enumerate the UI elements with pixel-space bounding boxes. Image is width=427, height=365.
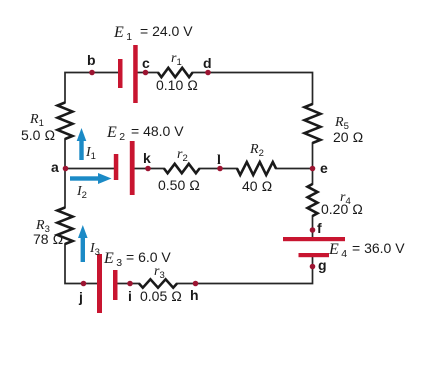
svg-text:0.20 Ω: 0.20 Ω bbox=[321, 201, 363, 217]
wire middle right: R2 to e bbox=[276, 168, 313, 170]
wire middle left: a to battery E2 bbox=[65, 168, 114, 170]
wire bottom left: r3 to i to battery E3 bbox=[118, 283, 140, 285]
current arrow I1 bbox=[79, 139, 83, 160]
node i bbox=[127, 281, 133, 287]
wire right: r4 to f to battery E4 bbox=[312, 216, 314, 237]
node d bbox=[205, 70, 211, 76]
battery E1 positive plate (long) bbox=[133, 45, 138, 103]
svg-text:I2: I2 bbox=[76, 184, 87, 201]
node c bbox=[143, 70, 149, 76]
svg-text:k: k bbox=[143, 150, 151, 166]
resistor R5 20ohm bbox=[305, 104, 321, 143]
svg-text:f: f bbox=[317, 220, 322, 236]
wire top right: r1 to top-right corner down to R5 bbox=[193, 73, 313, 105]
svg-text:= 6.0 V: = 6.0 V bbox=[126, 249, 171, 265]
resistor R1 5.0ohm bbox=[58, 103, 73, 140]
svg-text:E4: E4 bbox=[328, 241, 347, 260]
node f bbox=[310, 227, 316, 233]
wire bottom: battery E3 to j to corner up to R3 bbox=[65, 244, 97, 284]
svg-text:0.10 Ω: 0.10 Ω bbox=[156, 77, 198, 93]
svg-text:d: d bbox=[203, 55, 212, 71]
svg-text:40 Ω: 40 Ω bbox=[242, 178, 272, 194]
node b bbox=[89, 70, 95, 76]
battery E2 positive plate (long) bbox=[130, 141, 135, 195]
svg-text:0.05 Ω: 0.05 Ω bbox=[140, 288, 182, 304]
wire top mid: battery E1 to r1 bbox=[138, 72, 159, 74]
wire right mid: R5 to e to r4 bbox=[312, 143, 314, 184]
battery E3 negative plate (short) bbox=[113, 270, 118, 300]
svg-text:e: e bbox=[320, 160, 328, 176]
resistor r4 0.20ohm bbox=[308, 184, 318, 216]
wire middle: r2 to l to R2 bbox=[200, 168, 238, 170]
svg-text:5.0 Ω: 5.0 Ω bbox=[21, 127, 55, 143]
svg-text:r3: r3 bbox=[154, 264, 165, 281]
battery E4 negative plate (short) bbox=[299, 253, 330, 257]
svg-text:E2: E2 bbox=[106, 124, 125, 143]
current arrow I2 bbox=[70, 176, 99, 180]
svg-text:20 Ω: 20 Ω bbox=[333, 129, 363, 145]
node l bbox=[217, 166, 223, 172]
wire left: R3 to a to R1 bbox=[64, 139, 66, 208]
resistor r3 0.05ohm bbox=[139, 279, 177, 287]
wire middle: battery E2 to k to r2 bbox=[135, 168, 165, 170]
resistor r2 0.50ohm bbox=[164, 164, 200, 173]
resistor r1 0.10ohm bbox=[158, 68, 193, 77]
svg-text:= 48.0 V: = 48.0 V bbox=[131, 123, 184, 139]
wire top left: b to battery E1 bbox=[65, 73, 118, 103]
svg-text:i: i bbox=[128, 288, 132, 304]
svg-text:= 24.0 V: = 24.0 V bbox=[140, 23, 193, 39]
svg-text:l: l bbox=[217, 153, 221, 168]
node h bbox=[193, 281, 199, 287]
resistor R3 78ohm bbox=[57, 208, 72, 245]
resistor R2 40ohm bbox=[237, 162, 276, 175]
svg-text:= 36.0 V: = 36.0 V bbox=[352, 240, 405, 256]
node e bbox=[310, 166, 316, 172]
svg-text:I1: I1 bbox=[85, 145, 96, 162]
battery E2 negative plate (short) bbox=[114, 154, 119, 180]
battery E3 positive plate (long) bbox=[97, 254, 102, 313]
svg-text:E1: E1 bbox=[113, 24, 132, 43]
node g bbox=[310, 264, 316, 270]
svg-text:R2: R2 bbox=[249, 142, 264, 159]
svg-text:c: c bbox=[142, 55, 150, 71]
svg-text:E3: E3 bbox=[103, 250, 122, 269]
svg-text:g: g bbox=[318, 257, 327, 273]
battery E1 negative plate (short) bbox=[118, 59, 123, 88]
svg-text:I3: I3 bbox=[89, 241, 100, 258]
svg-text:h: h bbox=[190, 287, 199, 303]
svg-text:a: a bbox=[51, 159, 59, 175]
wire right bottom: battery E4 to g to bottom corner bbox=[177, 257, 313, 284]
svg-text:0.50 Ω: 0.50 Ω bbox=[158, 177, 200, 193]
svg-text:r2: r2 bbox=[177, 147, 188, 164]
svg-text:r1: r1 bbox=[171, 51, 182, 68]
node k bbox=[145, 166, 151, 172]
current arrow I3 bbox=[81, 236, 85, 262]
node j bbox=[81, 281, 87, 287]
svg-text:j: j bbox=[78, 289, 83, 305]
node a bbox=[63, 166, 69, 172]
svg-text:78 Ω: 78 Ω bbox=[33, 231, 63, 247]
svg-text:b: b bbox=[87, 52, 96, 68]
battery E4 positive plate (long) bbox=[283, 237, 345, 241]
